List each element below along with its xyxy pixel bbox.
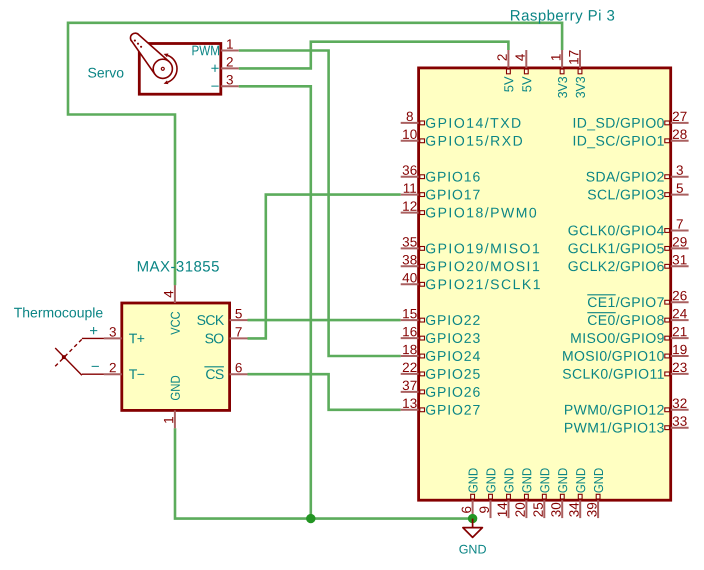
svg-text:37: 37 bbox=[402, 378, 417, 393]
svg-text:33: 33 bbox=[672, 414, 687, 429]
svg-text:24: 24 bbox=[672, 306, 688, 321]
svg-text:15: 15 bbox=[402, 306, 417, 321]
svg-text:ID_SC/GPIO1: ID_SC/GPIO1 bbox=[572, 133, 664, 149]
svg-text:GPIO17: GPIO17 bbox=[425, 186, 481, 202]
svg-text:2: 2 bbox=[495, 54, 510, 62]
svg-text:GCLK2/GPIO6: GCLK2/GPIO6 bbox=[568, 258, 665, 274]
svg-text:3: 3 bbox=[226, 72, 234, 87]
svg-text:17: 17 bbox=[566, 50, 581, 65]
svg-text:16: 16 bbox=[402, 324, 417, 339]
svg-text:GPIO20/MOSI1: GPIO20/MOSI1 bbox=[425, 258, 541, 274]
svg-text:35: 35 bbox=[402, 234, 417, 249]
svg-text:2: 2 bbox=[226, 54, 234, 69]
svg-text:GPIO18/PWM0: GPIO18/PWM0 bbox=[425, 204, 538, 220]
svg-text:36: 36 bbox=[402, 163, 417, 178]
svg-text:PWM1/GPIO13: PWM1/GPIO13 bbox=[564, 419, 665, 435]
svg-text:11: 11 bbox=[403, 181, 417, 196]
svg-text:GND: GND bbox=[555, 468, 570, 493]
svg-text:SCK: SCK bbox=[197, 312, 225, 328]
svg-text:GPIO16: GPIO16 bbox=[425, 169, 481, 185]
svg-text:MAX-31855: MAX-31855 bbox=[137, 259, 220, 276]
svg-text:31: 31 bbox=[672, 252, 687, 267]
svg-text:ID_SD/GPIO0: ID_SD/GPIO0 bbox=[572, 115, 664, 131]
svg-text:GND: GND bbox=[573, 468, 588, 493]
svg-text:−: − bbox=[91, 358, 100, 375]
svg-text:9: 9 bbox=[477, 506, 492, 514]
svg-text:Thermocouple: Thermocouple bbox=[14, 304, 104, 320]
svg-text:+: + bbox=[89, 323, 98, 340]
svg-text:GND: GND bbox=[501, 468, 516, 493]
svg-text:39: 39 bbox=[584, 502, 599, 517]
svg-text:20: 20 bbox=[513, 502, 528, 517]
svg-text:GPIO23: GPIO23 bbox=[425, 330, 481, 346]
svg-text:GND: GND bbox=[168, 375, 183, 400]
svg-text:MOSI0/GPIO10: MOSI0/GPIO10 bbox=[562, 348, 665, 364]
svg-text:1: 1 bbox=[161, 416, 176, 424]
svg-text:SO: SO bbox=[205, 330, 225, 346]
svg-text:GPIO22: GPIO22 bbox=[425, 312, 481, 328]
svg-text:34: 34 bbox=[567, 502, 582, 518]
svg-text:18: 18 bbox=[402, 342, 417, 357]
svg-text:1: 1 bbox=[548, 54, 563, 62]
svg-text:30: 30 bbox=[549, 502, 564, 517]
svg-text:5V: 5V bbox=[501, 76, 516, 92]
svg-text:26: 26 bbox=[672, 288, 687, 303]
svg-text:GPIO25: GPIO25 bbox=[425, 366, 481, 382]
svg-text:3: 3 bbox=[676, 163, 684, 178]
svg-text:13: 13 bbox=[402, 396, 417, 411]
svg-text:12: 12 bbox=[402, 199, 417, 214]
svg-text:T+: T+ bbox=[129, 330, 145, 346]
svg-text:GND: GND bbox=[465, 468, 480, 493]
svg-text:GND: GND bbox=[459, 542, 487, 556]
svg-text:PWM: PWM bbox=[191, 42, 219, 58]
svg-text:GND: GND bbox=[483, 468, 498, 493]
svg-text:SCLK0/GPIO11: SCLK0/GPIO11 bbox=[562, 366, 665, 382]
svg-text:PWM0/GPIO12: PWM0/GPIO12 bbox=[564, 402, 665, 418]
svg-text:Servo: Servo bbox=[87, 65, 124, 81]
svg-text:40: 40 bbox=[402, 270, 417, 285]
svg-text:GPIO27: GPIO27 bbox=[425, 402, 481, 418]
svg-text:3V3: 3V3 bbox=[555, 76, 570, 98]
svg-text:6: 6 bbox=[235, 360, 243, 375]
svg-text:CE1/GPIO7: CE1/GPIO7 bbox=[587, 294, 665, 310]
svg-text:GPIO15/RXD: GPIO15/RXD bbox=[425, 133, 524, 149]
svg-text:38: 38 bbox=[402, 252, 417, 267]
svg-text:21: 21 bbox=[672, 324, 687, 339]
svg-text:GND: GND bbox=[537, 468, 552, 493]
svg-text:8: 8 bbox=[406, 109, 414, 124]
svg-text:GND: GND bbox=[591, 468, 606, 493]
svg-text:GPIO24: GPIO24 bbox=[425, 348, 481, 364]
svg-text:4: 4 bbox=[513, 53, 528, 61]
svg-text:SDA/GPIO2: SDA/GPIO2 bbox=[586, 168, 665, 184]
svg-text:5: 5 bbox=[676, 181, 684, 196]
svg-text:28: 28 bbox=[672, 127, 687, 142]
svg-text:14: 14 bbox=[495, 502, 510, 518]
svg-text:GND: GND bbox=[519, 468, 534, 493]
svg-text:GPIO19/MISO1: GPIO19/MISO1 bbox=[425, 240, 541, 256]
svg-text:GCLK0/GPIO4: GCLK0/GPIO4 bbox=[568, 222, 665, 238]
svg-text:GPIO21/SCLK1: GPIO21/SCLK1 bbox=[425, 276, 542, 292]
svg-text:−: − bbox=[211, 78, 220, 95]
svg-text:27: 27 bbox=[672, 109, 687, 124]
svg-text:22: 22 bbox=[402, 360, 417, 375]
svg-text:10: 10 bbox=[402, 127, 417, 142]
svg-text:7: 7 bbox=[235, 324, 243, 339]
svg-text:19: 19 bbox=[672, 342, 687, 357]
svg-text:GPIO14/TXD: GPIO14/TXD bbox=[425, 115, 522, 131]
svg-text:MISO0/GPIO9: MISO0/GPIO9 bbox=[570, 330, 665, 346]
svg-text:CE0/GPIO8: CE0/GPIO8 bbox=[587, 312, 665, 328]
svg-text:25: 25 bbox=[531, 502, 546, 517]
svg-text:3V3: 3V3 bbox=[573, 76, 588, 98]
svg-text:VCC: VCC bbox=[168, 311, 183, 334]
svg-text:23: 23 bbox=[672, 360, 687, 375]
svg-text:+: + bbox=[211, 60, 220, 77]
svg-text:5: 5 bbox=[235, 306, 243, 321]
svg-text:CS: CS bbox=[205, 366, 224, 382]
svg-text:4: 4 bbox=[161, 290, 176, 298]
svg-text:SCL/GPIO3: SCL/GPIO3 bbox=[587, 186, 665, 202]
svg-text:3: 3 bbox=[109, 324, 117, 339]
svg-text:6: 6 bbox=[459, 506, 474, 514]
svg-text:1: 1 bbox=[226, 37, 234, 52]
svg-text:32: 32 bbox=[672, 396, 687, 411]
svg-text:29: 29 bbox=[672, 234, 687, 249]
svg-text:2: 2 bbox=[109, 360, 117, 375]
svg-text:Raspberry Pi 3: Raspberry Pi 3 bbox=[510, 8, 616, 25]
svg-text:T−: T− bbox=[129, 366, 145, 382]
svg-text:7: 7 bbox=[676, 217, 684, 232]
svg-text:5V: 5V bbox=[519, 76, 534, 92]
svg-text:GPIO26: GPIO26 bbox=[425, 384, 481, 400]
svg-text:GCLK1/GPIO5: GCLK1/GPIO5 bbox=[568, 240, 665, 256]
